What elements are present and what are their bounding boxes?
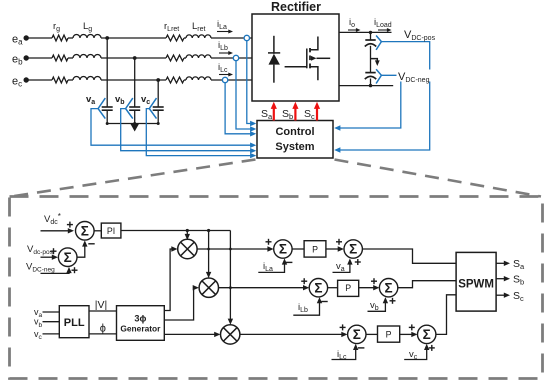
- label V_dc-pos: [27, 244, 54, 256]
- wire v_c to PLL: [43, 333, 60, 335]
- summer SUM6: [379, 279, 397, 297]
- svg-text:P: P: [386, 330, 392, 340]
- wire V_DC-neg measurement: [334, 75, 401, 130]
- capacitor C_DC upper: [365, 40, 376, 47]
- sign plus V_dc*: [67, 222, 73, 228]
- resistor r_Lret phase C: [166, 77, 184, 83]
- wire SUM3 to P1: [292, 248, 304, 250]
- wire DC-pos rail: [339, 31, 392, 34]
- inductor L_g phase B: [73, 55, 101, 58]
- svg-text:P: P: [312, 244, 318, 254]
- svg-text:SPWM: SPWM: [458, 279, 494, 291]
- wire PI to MUL2: [206, 231, 211, 279]
- wire i_Lc measurement: [225, 83, 256, 137]
- summer SUM3: [274, 240, 292, 258]
- svg-text:Σ: Σ: [64, 250, 72, 265]
- wire i_Lb measurement: [236, 61, 256, 132]
- wire V_dc* input: [41, 228, 75, 233]
- svg-text:3ϕ: 3ϕ: [134, 314, 146, 324]
- sign minus SUM1: [88, 243, 94, 245]
- label i_Lc feedback: [337, 349, 347, 361]
- wire SUM4 to SPWM: [362, 249, 456, 263]
- sign plus V_DC-neg: [72, 267, 78, 273]
- sign plus SUM4 in: [336, 239, 342, 245]
- wire cap branch C: [157, 80, 159, 107]
- PI controller: [101, 223, 121, 238]
- resistor r_Lret phase A: [166, 35, 184, 41]
- inductor L_ret phase A: [186, 35, 211, 38]
- wire V_DC-neg input: [41, 267, 72, 274]
- wire MUL2 to SUM5: [219, 285, 310, 290]
- wire i_La feedback: [258, 258, 287, 272]
- wire v_a feedback: [333, 258, 353, 272]
- label L_g: [83, 21, 92, 33]
- sign plus SUM5 in: [301, 278, 307, 284]
- wire V_dc-pos input: [41, 255, 59, 260]
- three-phase generator block: [117, 306, 165, 341]
- wire MUL3 to SUM7: [240, 332, 348, 337]
- label i_La feedback: [263, 261, 273, 273]
- voltage source e_b: [12, 54, 29, 67]
- transistor Q1 (MOSFET): [285, 37, 331, 81]
- wire SUM6 to SPWM: [398, 281, 456, 288]
- wire phase A: [26, 37, 252, 39]
- sign plus SUM6 in: [371, 278, 377, 284]
- gate signal S_a (red): [261, 102, 277, 121]
- svg-text:PI: PI: [107, 226, 115, 236]
- label v_b: [115, 94, 125, 106]
- wire v_b feedback: [368, 297, 389, 311]
- wire V_DC-pos measurement: [334, 42, 430, 153]
- gate signal S_c (red): [304, 102, 320, 121]
- resistor r_g phase C: [52, 77, 68, 83]
- label v_a feedback: [336, 261, 345, 273]
- junction phase C tap: [156, 78, 160, 82]
- svg-text:Σ: Σ: [279, 242, 287, 257]
- inductor L_g phase A: [73, 35, 101, 39]
- wire SUM2 to SUM1: [77, 240, 88, 257]
- svg-text:Σ: Σ: [81, 223, 89, 238]
- inductor L_ret phase C: [186, 77, 211, 80]
- capacitor C_fa: [102, 107, 113, 124]
- wire v_b to PLL: [43, 321, 60, 323]
- gain P2: [338, 280, 359, 296]
- summer SUM5: [309, 279, 327, 297]
- wire P2 to SUM6: [359, 285, 380, 290]
- output S_c: [496, 290, 524, 303]
- wire P1 to SUM4: [326, 246, 344, 251]
- sign minus SUM7: [358, 347, 364, 349]
- probe V_DC-pos: [376, 36, 381, 50]
- sign plus SUM3 in: [266, 239, 272, 245]
- SPWM block: [456, 252, 496, 311]
- sign plus V_dc-pos: [51, 248, 57, 254]
- wire v_c feedback: [404, 344, 429, 360]
- label v_b feedback: [370, 300, 379, 312]
- capacitor C_DC lower: [365, 73, 376, 80]
- resistor r_g phase B: [52, 55, 68, 61]
- multiplier MUL2: [199, 278, 218, 297]
- wire phase B: [26, 57, 252, 59]
- svg-text:Control: Control: [275, 126, 314, 138]
- wire phi: [89, 333, 117, 335]
- node i_Lb measurement: [233, 55, 238, 60]
- sign plus SUM7 in: [340, 324, 346, 330]
- wire SUM7 to P3: [366, 333, 378, 335]
- wire DC link: [370, 32, 372, 85]
- wire PI to MUL3: [228, 231, 233, 325]
- callout dashed right: [335, 160, 542, 197]
- label V_DC-neg input: [26, 262, 55, 274]
- multiplier MUL3: [221, 325, 240, 344]
- probe v_b: [126, 98, 133, 119]
- wire v_a measurement: [91, 109, 256, 148]
- inductor L_ret phase B: [186, 55, 211, 58]
- label i_Lc: [218, 62, 233, 77]
- wire |V|: [89, 310, 117, 312]
- wire SUM1 to PI: [94, 230, 101, 232]
- label V_DC-neg: [397, 70, 434, 85]
- resistor r_g phase A: [52, 35, 68, 41]
- sign minus SUM3: [286, 261, 292, 263]
- output S_a: [496, 258, 525, 271]
- label i_La: [217, 19, 233, 34]
- summer SUM8: [418, 325, 436, 343]
- junction phase A tap: [105, 36, 109, 40]
- wire v_b measurement: [121, 109, 257, 154]
- wire PI to MUL1: [185, 231, 190, 241]
- probe v_c: [149, 98, 156, 119]
- inductor L_g phase C: [73, 77, 101, 81]
- control system block: [257, 121, 333, 159]
- multiplier MUL1: [178, 239, 197, 258]
- wire P3 to SUM8: [400, 332, 418, 337]
- label |V|: [95, 299, 107, 311]
- wire cap branch A: [106, 38, 108, 107]
- summer SUM2: [58, 248, 77, 267]
- wire SUM5 to P2: [328, 287, 338, 289]
- node i_La measurement: [244, 35, 249, 40]
- svg-text:Σ: Σ: [353, 327, 361, 342]
- sign plus v_c: [429, 345, 435, 351]
- wire phase C: [26, 79, 252, 81]
- wire i_La measurement: [247, 41, 256, 126]
- svg-text:Σ: Σ: [349, 242, 357, 257]
- svg-text:System: System: [275, 141, 314, 153]
- label i_o: [348, 17, 361, 32]
- wire PI output: [121, 229, 230, 232]
- label v_a input: [34, 307, 43, 319]
- label V_dc*: [44, 212, 61, 226]
- sign plus v_a: [355, 259, 361, 265]
- label r_Lret: [164, 21, 179, 33]
- wire DC-neg rail: [339, 84, 393, 87]
- wire SUM8 to SPWM: [436, 295, 456, 335]
- svg-text:Σ: Σ: [314, 280, 322, 295]
- capacitor C_fc: [153, 107, 164, 124]
- wire cap branch B: [134, 58, 136, 107]
- PLL block: [59, 306, 89, 338]
- sign plus v_b: [390, 298, 396, 304]
- wire i_Lb feedback: [293, 297, 322, 315]
- callout dashed left: [11, 160, 256, 197]
- label v_b input: [34, 317, 43, 329]
- svg-text:Generator: Generator: [120, 324, 161, 334]
- label L_ret: [192, 21, 206, 33]
- gain P3: [378, 326, 400, 342]
- wire neutral bus: [106, 122, 160, 125]
- label phi: [100, 323, 106, 335]
- wire gen to MUL1: [164, 246, 177, 310]
- label i_Lb: [218, 40, 233, 55]
- label v_c feedback: [409, 349, 418, 361]
- sign plus SUM8 in: [409, 324, 415, 330]
- probe v_a: [98, 98, 105, 119]
- gain P1: [304, 241, 326, 257]
- svg-text:PLL: PLL: [64, 317, 85, 329]
- summer SUM4: [344, 240, 362, 258]
- sign minus SUM5: [321, 301, 327, 303]
- label v_c input: [34, 329, 43, 341]
- probe V_DC-neg: [376, 69, 381, 83]
- svg-text:Σ: Σ: [385, 280, 393, 295]
- svg-text:Σ: Σ: [423, 327, 431, 342]
- label r_g: [53, 21, 60, 33]
- voltage source e_a: [12, 34, 29, 47]
- junction phase B tap: [133, 56, 137, 60]
- label v_c: [141, 94, 150, 106]
- label v_a: [86, 94, 95, 106]
- wire v_c measurement: [146, 109, 256, 159]
- capacitor C_fb: [129, 107, 140, 124]
- summer SUM1: [76, 222, 95, 241]
- svg-text:|V|: |V|: [95, 299, 107, 311]
- load current arrow: [371, 59, 380, 66]
- wire gen to MUL2: [164, 285, 199, 320]
- wire MUL1 to SUM3: [197, 246, 274, 251]
- wire i_Lc feedback: [332, 344, 359, 360]
- ground: [131, 124, 139, 132]
- detail view dashed border: [10, 197, 543, 379]
- resistor r_Lret phase B: [166, 55, 184, 61]
- svg-text:ϕ: ϕ: [100, 323, 106, 335]
- node i_Lc measurement: [222, 77, 227, 82]
- label i_Load: [374, 17, 392, 32]
- voltage source e_c: [12, 76, 29, 89]
- output S_b: [496, 273, 524, 286]
- gate signal S_b (red): [282, 102, 299, 121]
- rectifier block U1: [252, 14, 339, 101]
- svg-text:Rectifier: Rectifier: [271, 0, 321, 14]
- diode D1: [268, 36, 280, 83]
- summer SUM7: [348, 325, 366, 343]
- wire v_a to PLL: [43, 311, 60, 313]
- label Rectifier: [271, 0, 321, 14]
- label i_Lb feedback: [298, 302, 308, 314]
- label V_DC-pos: [404, 29, 436, 42]
- svg-text:P: P: [345, 283, 351, 293]
- wire gen to MUL3: [164, 332, 220, 337]
